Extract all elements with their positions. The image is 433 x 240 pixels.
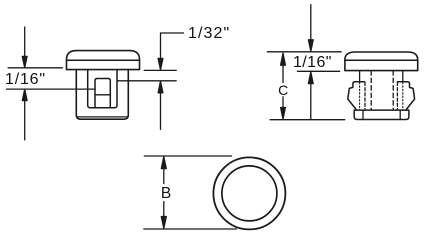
B dim line upper segment (163, 169, 165, 184)
B dim upper arrowhead (161, 157, 166, 169)
C dim lower arrowhead (281, 108, 286, 120)
right view rim inner line right (399, 110, 401, 119)
B dim top extension line (144, 155, 231, 157)
right 1/16 dim line lower segment (310, 84, 312, 120)
left 1/16 dim upper arrowhead (22, 56, 27, 67)
right view left prong neck (359, 71, 361, 82)
C dim line upper segment (282, 65, 284, 82)
svg-text:1/16": 1/16" (5, 71, 46, 88)
1/32 dim upper extension line (144, 69, 176, 71)
1/32 dim line lower segment (160, 93, 162, 130)
right cap-bottom extension line (297, 70, 339, 72)
B dim lower arrowhead (161, 217, 166, 229)
right view cap (flange) (345, 52, 418, 71)
right 1/16 dim lower arrowhead (308, 72, 313, 84)
left view web interior line (95, 94, 110, 96)
B dim line lower segment (163, 202, 165, 217)
left view cap (flange) (67, 51, 140, 70)
right 1/16 dim upper arrowhead (308, 40, 313, 51)
right view hidden hole line right (dashed) (392, 71, 394, 111)
svg-text:B: B (161, 185, 171, 202)
left view cap mid-line (67, 59, 140, 61)
right view right prong hidden edge (dashed) (396, 83, 398, 111)
left view body chamfer line (78, 116, 127, 118)
right view right prong neck (402, 71, 404, 82)
1/32 dim lower extension line (117, 80, 176, 82)
right view cap mid-line (345, 59, 418, 61)
left view inner slot walls (88, 70, 117, 108)
left 1/16 dim lower arrowhead (22, 89, 27, 100)
right view bottom rim (354, 110, 409, 119)
right view left prong ledge and barb (348, 82, 365, 110)
left view inner hole walls (95, 79, 110, 108)
right top extension line (267, 51, 341, 53)
1/32 dim lower arrowhead (158, 81, 163, 93)
right view right prong ledge and barb (397, 82, 414, 110)
right view rim inner line left (362, 110, 364, 119)
C dim upper arrowhead (281, 53, 286, 65)
1/32 dim upper arrowhead (158, 58, 163, 70)
right 1/16 dim line upper segment (310, 5, 312, 40)
left 1/16 dim lower extension line (7, 88, 96, 90)
C dim line lower segment (282, 97, 284, 108)
right view right prong hidden center line (dashed) (402, 83, 404, 111)
svg-text:C: C (278, 82, 288, 98)
right bottom extension line (270, 119, 345, 121)
left view body outline (76, 70, 128, 120)
right view hidden hole line left (dashed) (370, 71, 372, 111)
left 1/16 dim upper extension line (8, 67, 62, 69)
plan view inner circle (222, 166, 277, 221)
svg-text:1/32": 1/32" (188, 25, 230, 42)
B dim bottom extension line (144, 228, 237, 230)
svg-text:1/16": 1/16" (293, 54, 332, 71)
1/32 dim leader line (161, 33, 184, 58)
right view left prong hidden center line (dashed) (359, 83, 361, 111)
right view left prong hidden edge (dashed) (364, 83, 366, 111)
plan view outer circle (213, 157, 285, 229)
left 1/16 dim line lower segment (24, 101, 26, 140)
left 1/16 dim line upper segment (24, 27, 26, 56)
